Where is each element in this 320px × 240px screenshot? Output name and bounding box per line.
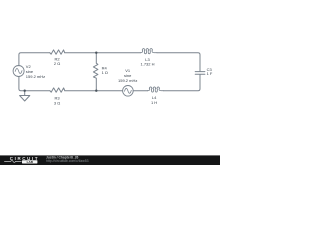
sine glyph V1 — [125, 88, 132, 93]
ground stub — [24, 91, 26, 96]
svg-text:3 Ω: 3 Ω — [54, 100, 60, 105]
wire L3 to top-right corner down to C3 — [157, 53, 200, 72]
capacitor C3 — [195, 72, 205, 75]
svg-text:159.2 mHz: 159.2 mHz — [118, 78, 137, 83]
resistor R2 — [50, 50, 65, 54]
node B (R4 bottom junction) — [95, 90, 97, 92]
watermark bar — [0, 155, 220, 165]
svg-text:1 H: 1 H — [151, 100, 157, 105]
inductor L3 — [140, 49, 157, 54]
wire R2 to L3 through node — [65, 52, 141, 54]
svg-text:LAB: LAB — [27, 160, 34, 164]
inductor L4 — [147, 87, 163, 92]
svg-text:2 Ω: 2 Ω — [54, 61, 60, 66]
wire L4 to V1 — [133, 90, 147, 92]
svg-text:1 F: 1 F — [207, 71, 213, 76]
svg-text:http://circuitlab.com/c/6zw53: http://circuitlab.com/c/6zw53 — [46, 159, 89, 163]
wire C3 to bottom-right corner to L4 — [163, 75, 200, 91]
voltage source V1 circle — [123, 86, 134, 97]
node C (ground junction) — [24, 90, 26, 92]
svg-text:1 Ω: 1 Ω — [102, 70, 108, 75]
svg-text:159.2 mHz: 159.2 mHz — [26, 74, 45, 79]
resistor R4 vertical — [93, 53, 98, 91]
svg-text:1.732 H: 1.732 H — [140, 61, 154, 66]
node A (R4 top junction) — [95, 52, 97, 54]
sine glyph V2 — [15, 68, 22, 73]
wire top-left from V2 top to R2 — [19, 53, 50, 66]
svg-text:CIRCUIT: CIRCUIT — [10, 156, 39, 161]
wire R3 to bottom-left corner up to V2 bottom — [19, 77, 50, 91]
voltage source V2 circle — [13, 66, 24, 77]
logo wave — [4, 160, 21, 162]
logo LAB box — [22, 160, 37, 163]
ground symbol — [20, 96, 30, 102]
wire V1 to R3 — [65, 90, 123, 92]
resistor R3 — [50, 88, 65, 92]
